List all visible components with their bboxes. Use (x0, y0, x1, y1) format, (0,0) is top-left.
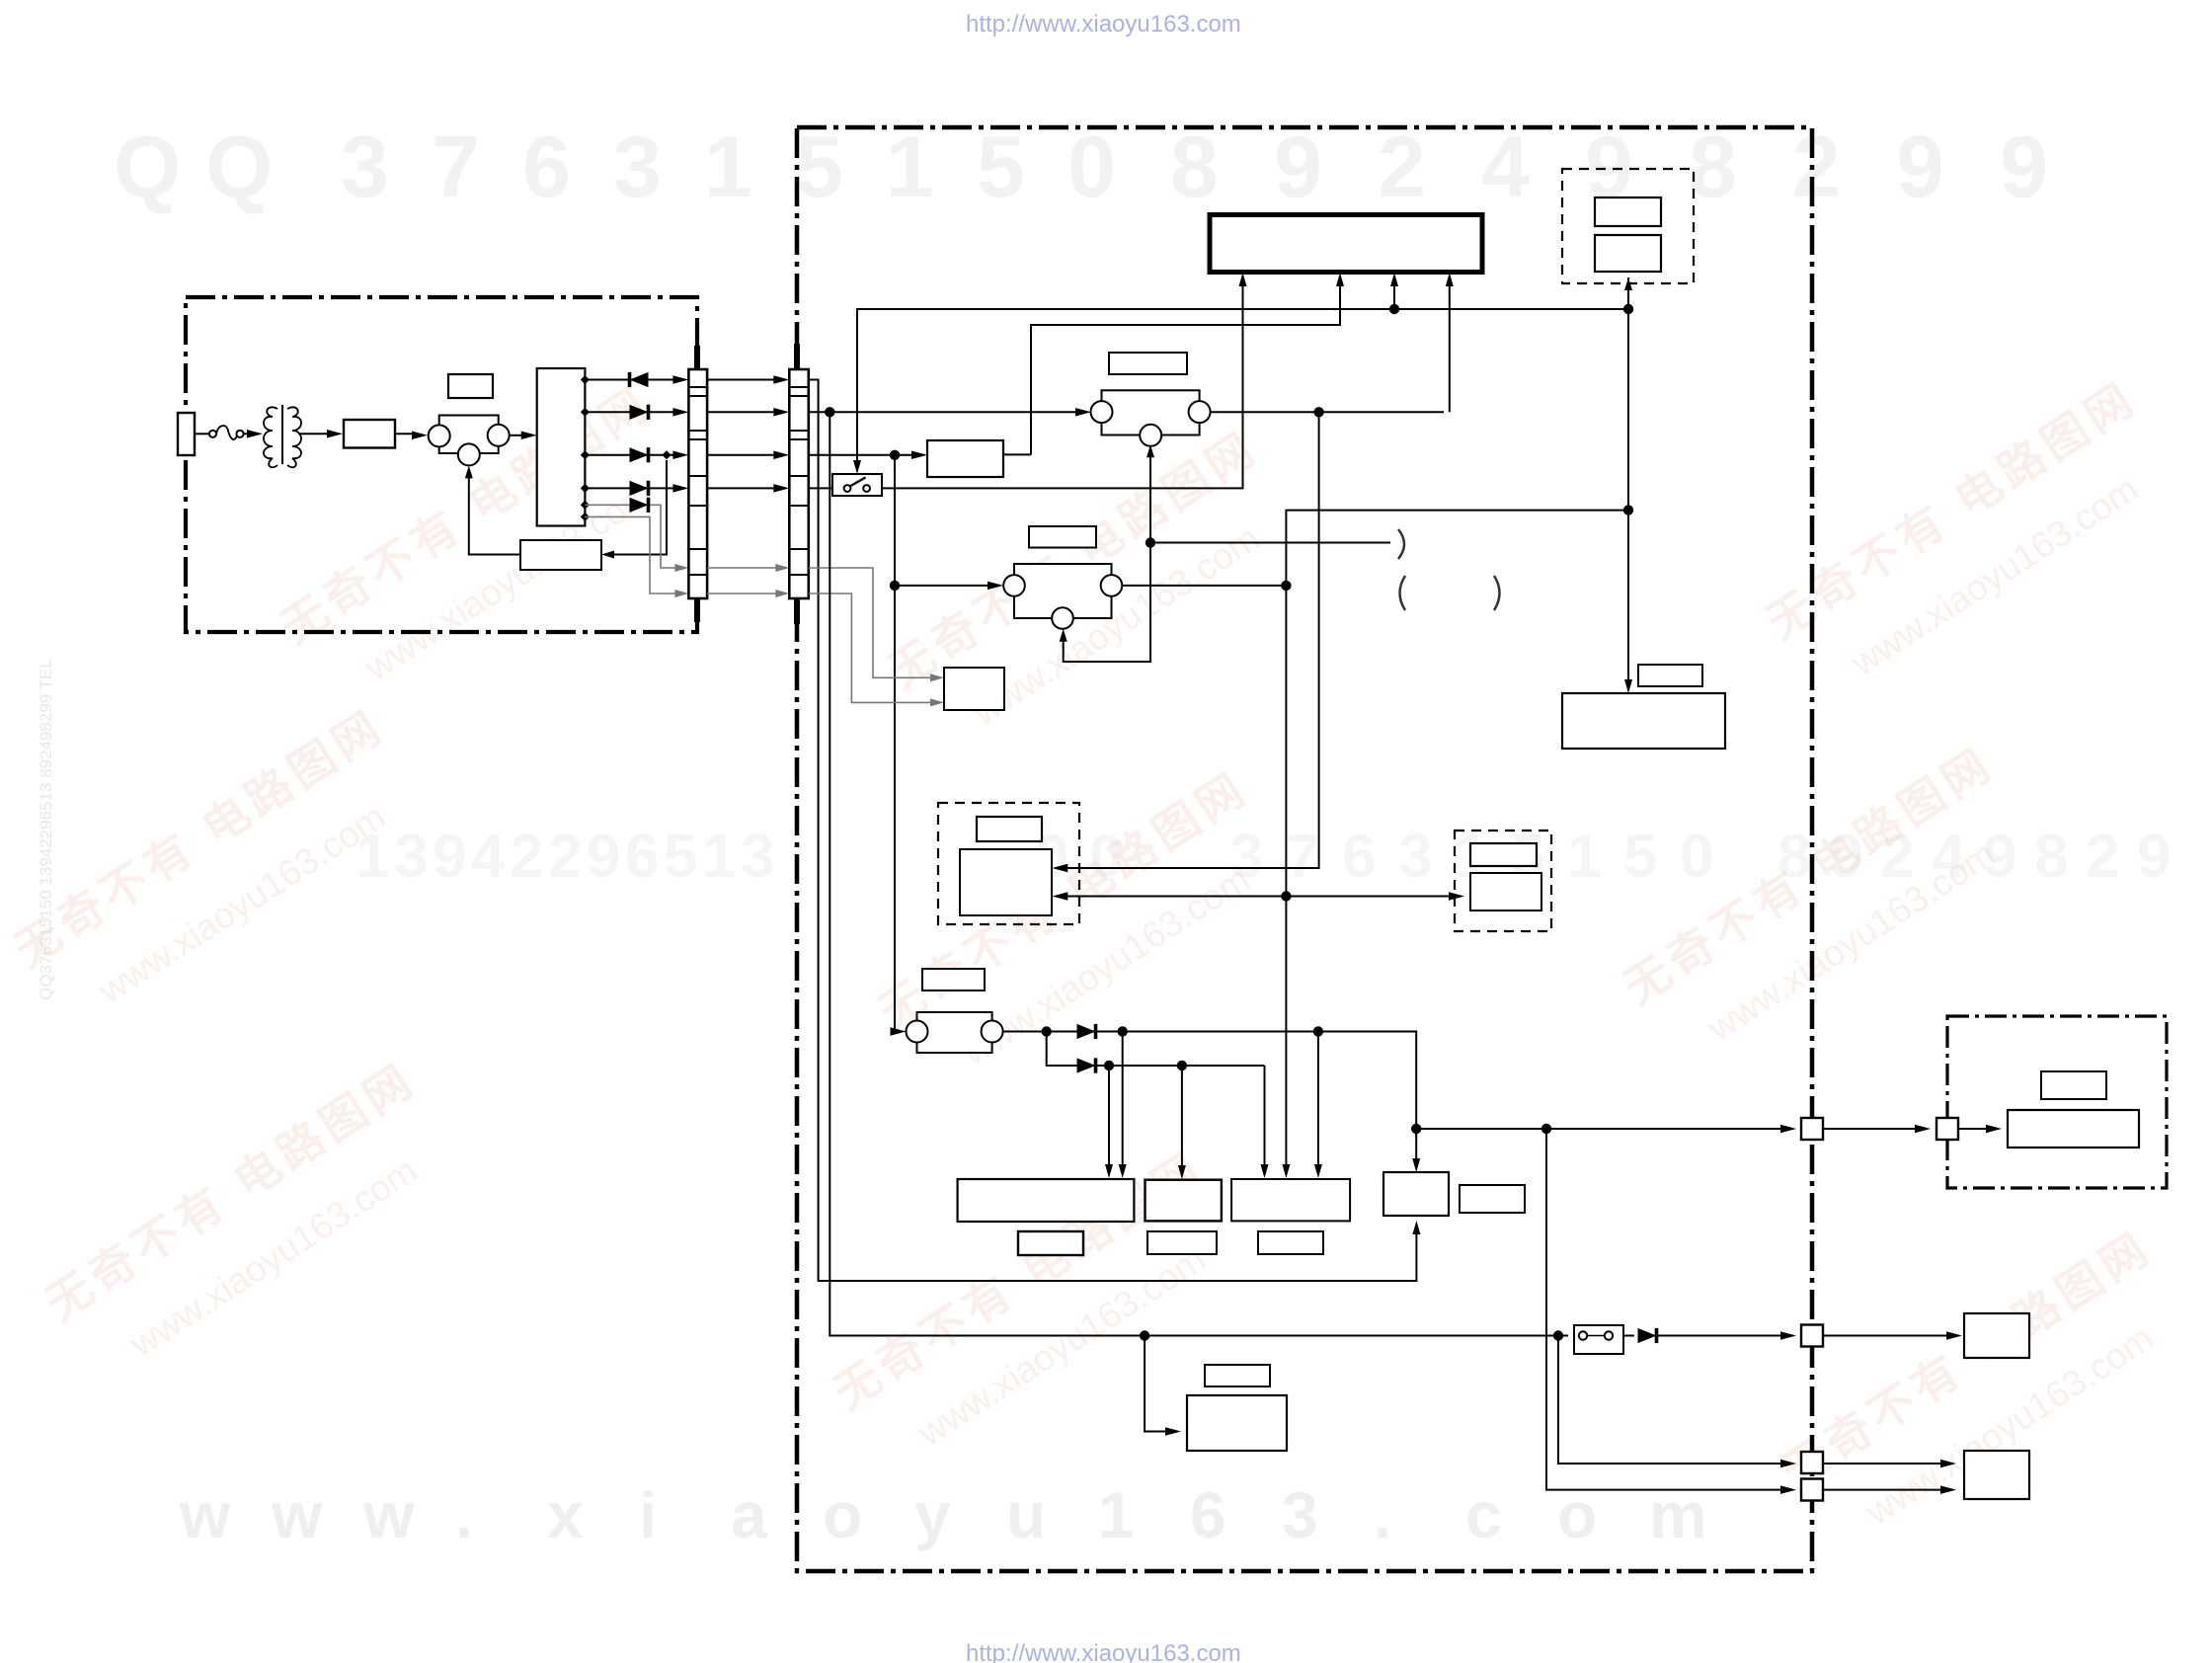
dashed sub-box F (1455, 831, 1551, 931)
feedback output wire to Q1 bottom circle (469, 471, 520, 555)
feeds into regulator boxes (1108, 1066, 1110, 1172)
svg-text:http://www.xiaoyu163.com: http://www.xiaoyu163.com (966, 1640, 1241, 1663)
svg-text:3: 3 (1398, 823, 1432, 891)
svg-text:9: 9 (1274, 118, 1322, 215)
cluster3 output wire (1122, 585, 1286, 587)
audio power box label (1638, 665, 1702, 686)
svg-text:i: i (639, 1478, 657, 1551)
label under L1 (1018, 1231, 1083, 1255)
left power-supply dash-dot box border (186, 297, 697, 632)
connector CN left strip (688, 369, 707, 598)
border pass square y1509 (1801, 1479, 1823, 1501)
wire rectifier to regulator circles (395, 433, 416, 435)
main 12V line y1143 to border (1416, 1128, 1790, 1130)
wire AC inlet to fuse (195, 433, 208, 435)
border stub above left connector (694, 346, 700, 369)
label under L2 (1147, 1231, 1217, 1254)
row3 wire + diode + junction diamond (585, 454, 675, 456)
line y516 from cluster3 trunk to x1649 (1286, 511, 1628, 586)
bold system-control box (1210, 215, 1482, 273)
row6 wire to reset box (809, 594, 937, 702)
box F label rect (1470, 843, 1537, 866)
svg-text:2: 2 (1378, 118, 1426, 215)
standby box N (1383, 1172, 1449, 1216)
svg-text:9: 9 (1896, 118, 1944, 215)
svg-text:0: 0 (1067, 118, 1116, 215)
svg-text:2: 2 (1792, 118, 1841, 215)
svg-text:6: 6 (1342, 823, 1376, 891)
OSC cluster 2 label box (1109, 353, 1187, 374)
svg-text:6: 6 (625, 823, 659, 891)
box D lower rect (1595, 235, 1661, 272)
svg-text:Q: Q (114, 118, 181, 215)
svg-text:x: x (547, 1478, 584, 1551)
dashed sub-box D top right (1562, 169, 1694, 283)
CD box main rect (2008, 1110, 2139, 1148)
vertical trunk x1302 down to regulator box L3 (1285, 586, 1287, 1172)
svg-text:w: w (362, 1478, 415, 1551)
drop to power monitor box M (1145, 1336, 1175, 1432)
svg-text:1: 1 (704, 118, 752, 215)
connector CN right strip (789, 369, 809, 598)
main board dash-dot box border (797, 127, 1812, 1571)
diode after relay (1623, 1335, 1634, 1337)
dashed sub-box E (938, 803, 1079, 924)
parenthesis glyph 1 (1398, 529, 1404, 559)
reset box (944, 668, 1004, 710)
svg-text:5: 5 (977, 118, 1025, 215)
rail corner down to relay junction (1411, 1032, 1416, 1167)
feedback input wire from row3 (606, 460, 667, 555)
wire transformer to rectifier (298, 433, 330, 435)
svg-text:5: 5 (664, 823, 697, 891)
row1 wire + reverse diode (585, 379, 675, 381)
cluster4 label box (922, 969, 985, 990)
regulator box L1 (958, 1179, 1135, 1222)
svg-text:1: 1 (1098, 1478, 1135, 1551)
border stub above right connector (794, 344, 800, 369)
row4 wire from switch to bold box arrow1 (882, 277, 1243, 488)
box E label rect (977, 817, 1042, 841)
regulator box L3 (1231, 1179, 1350, 1221)
watermark: pink stamps (272, 376, 699, 714)
svg-text:1: 1 (886, 118, 934, 215)
svg-text:7: 7 (432, 118, 480, 215)
row2 wire + diode (585, 411, 675, 413)
svg-text:8: 8 (1170, 118, 1219, 215)
svg-text:9: 9 (2137, 823, 2171, 891)
vertical trunk x1649 (D box down to audio box) (1627, 309, 1629, 687)
svg-text:.: . (455, 1478, 473, 1551)
label right of box N (1460, 1185, 1525, 1213)
row2 line continues: cluster2 to bold box arrow4 (1210, 411, 1444, 413)
vertical to bold box arrow3 (1393, 277, 1395, 309)
svg-text:6: 6 (1190, 1478, 1226, 1551)
label under L3 (1258, 1231, 1323, 1254)
svg-text:8: 8 (1689, 118, 1737, 215)
box F main rect (1470, 873, 1541, 911)
driver box (927, 440, 1003, 477)
svg-text:5: 5 (795, 118, 843, 215)
svg-text:u: u (1006, 1478, 1046, 1551)
svg-text:3: 3 (741, 823, 774, 891)
fan box R1 (1964, 1313, 2029, 1358)
relay contact box (1574, 1325, 1623, 1354)
OSC transistor cluster 3 (1014, 564, 1112, 618)
row3 wire into driver box (809, 454, 921, 456)
power monitor box M (1187, 1395, 1287, 1451)
CD box label rect (2041, 1071, 2106, 1099)
driver output wire (1003, 453, 1031, 455)
drop from relay line to border square y1482 (1558, 1336, 1790, 1465)
wires to box R2 (1823, 1463, 1950, 1465)
vertical from cluster2 output to relay-E box line (1057, 412, 1319, 868)
regulator transistor cluster Q1 (439, 416, 499, 454)
wire row1 to standby box (long path) (809, 380, 1417, 1282)
node diamonds on drive block output (581, 375, 590, 384)
square on CD box border (1936, 1118, 1958, 1140)
svg-text:3: 3 (1282, 1478, 1318, 1551)
row6 wire (jog down) (585, 516, 675, 594)
svg-text:7: 7 (1286, 823, 1319, 891)
svg-text:9: 9 (2000, 118, 2048, 215)
box E main rect (960, 849, 1052, 915)
AC detect line y1352 from row2 vertical (829, 412, 1568, 1335)
feedback box (520, 540, 601, 570)
border pass square y1352 (1801, 1325, 1823, 1347)
svg-text:2: 2 (510, 823, 543, 891)
svg-text:.: . (1374, 1478, 1391, 1551)
box D upper rect (1595, 198, 1661, 226)
border stub below right connector (794, 598, 800, 624)
drive block (tall box) (537, 368, 586, 526)
power-control line y313 (857, 309, 1628, 468)
stub line y549 (1150, 542, 1390, 544)
B+ rail y1044 with diodes (1003, 1031, 1411, 1033)
sub-power transistor cluster 4 (917, 1012, 992, 1053)
cluster3 label box (1029, 526, 1096, 548)
row4 wire + diode (585, 487, 675, 489)
svg-text:8: 8 (2034, 823, 2068, 891)
svg-text:w: w (271, 1478, 323, 1551)
cluster2 bottom feed line down to cluster3 (1064, 449, 1150, 662)
svg-text:http://www.xiaoyu163.com: http://www.xiaoyu163.com (966, 11, 1241, 38)
row5 wire + diode (jog down) (585, 505, 675, 568)
svg-text:a: a (731, 1478, 768, 1551)
svg-text:3: 3 (613, 118, 662, 215)
svg-text:c: c (1465, 1478, 1502, 1551)
wire row2 main B+ line (809, 411, 1085, 413)
vertical trunk x906 down to cluster4 (895, 455, 900, 1032)
fuse F1 (209, 431, 216, 437)
svg-text:o: o (823, 1478, 862, 1551)
svg-text:5: 5 (1623, 823, 1657, 891)
svg-text:1: 1 (1567, 823, 1601, 891)
CD dash-dot box right (1947, 1016, 2167, 1188)
connector line between box E and box F (1057, 896, 1286, 898)
row5 wire to reset box (809, 568, 937, 677)
label box above Q1 (448, 374, 493, 398)
border pass square y1482 (1801, 1452, 1823, 1473)
svg-text:9: 9 (587, 823, 620, 891)
border stub below left connector (694, 598, 700, 622)
parenthesis glyph pair (1400, 576, 1406, 610)
svg-text:3: 3 (341, 118, 389, 215)
svg-text:Q: Q (205, 118, 273, 215)
audio power box (1562, 693, 1725, 749)
regulator box L2 (1145, 1180, 1222, 1222)
cluster3 input wire from trunk x906 (895, 585, 997, 587)
border pass square y1143 (1801, 1118, 1823, 1140)
svg-text:0: 0 (1680, 823, 1713, 891)
display box R2 (1964, 1451, 2029, 1499)
wire Q1 to drive block (510, 435, 521, 436)
svg-text:3: 3 (394, 823, 428, 891)
svg-text:2: 2 (2086, 823, 2119, 891)
drop from 12V line to border square y1509 (1546, 1129, 1790, 1490)
svg-text:y: y (914, 1478, 951, 1551)
line y329 from driver to bold box arrow2 (1031, 277, 1340, 454)
box M label (1205, 1365, 1270, 1386)
power switch S1 (832, 474, 882, 496)
svg-text:1: 1 (702, 823, 736, 891)
svg-text:9: 9 (433, 823, 466, 891)
svg-text:6: 6 (522, 118, 571, 215)
OSC transistor cluster 2 (1102, 390, 1200, 435)
wires between connector strips (707, 379, 783, 381)
row4 wire through power switch (809, 487, 832, 489)
sub rail y1079 with diode (1047, 1032, 1265, 1067)
svg-text:4: 4 (1481, 118, 1530, 215)
rectifier box (344, 420, 395, 448)
svg-text:w: w (179, 1478, 231, 1551)
svg-text:4: 4 (471, 823, 506, 891)
AC inlet connector (178, 413, 195, 455)
svg-text:2: 2 (548, 823, 582, 891)
transformer T1 (281, 405, 283, 464)
wire fuse to transformer (244, 433, 250, 435)
